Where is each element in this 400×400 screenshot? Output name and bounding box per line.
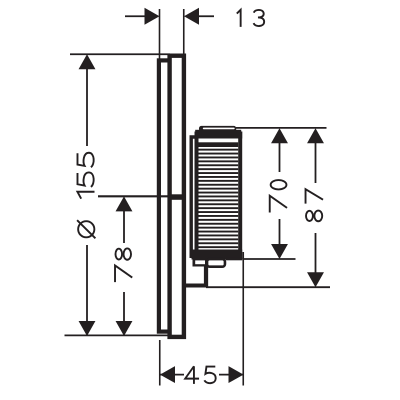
dimension 70 up arrow: [271, 128, 288, 143]
label 78 digit 7: [115, 265, 132, 282]
label 155 digit 5a: [77, 172, 93, 186]
label 70 digit 7: [270, 196, 287, 213]
label 87 digit 8: [306, 211, 322, 222]
underside front edge line: [226, 258, 242, 261]
dimension 87 bottom extension line: [206, 286, 330, 288]
label 155 diameter sign: [77, 220, 95, 238]
dimension 78 line upper segment: [123, 203, 125, 243]
dimension 13 right arrow: [184, 8, 199, 25]
knob upper chamfer band: [199, 142, 239, 147]
dimension 70 down arrow: [271, 244, 288, 259]
knob bottom rim band: [192, 250, 243, 260]
dimension 70-87 top extension line: [236, 127, 327, 129]
knob top cap inner white line: [203, 128, 235, 130]
wire centre axis tick: [98, 195, 184, 197]
dimension 87 line lower segment: [315, 233, 317, 274]
spindle block at centre of plate: [171, 194, 182, 200]
lever tab below handle: [184, 267, 208, 288]
dimension 155 line lower segment: [86, 245, 88, 325]
label 45 digit 4: [185, 366, 199, 384]
dimension 70 line lower segment: [279, 219, 281, 246]
dimension 78 down arrow: [116, 321, 133, 336]
knob body (knurled handle, side view): [197, 134, 241, 258]
wire bottom extension line of plate (diameter 155 lower): [65, 334, 171, 336]
knob neck (between plate and handle): [191, 137, 196, 258]
label 87 digit 7: [306, 189, 323, 203]
dimension 45 left arrow: [160, 366, 175, 383]
dimension 78 line lower segment: [123, 292, 125, 330]
label 155 digit 5b: [77, 153, 93, 167]
dimension 70 bottom extension line: [243, 258, 296, 260]
dimension 13 left tail: [125, 15, 146, 17]
dimension 87 up arrow: [307, 128, 324, 143]
dimension 78 up arrow: [116, 196, 133, 211]
label 13 digit 3: [254, 10, 265, 26]
wire top extension line of plate (diameter 155 upper): [70, 53, 170, 55]
knurling stripes on handle: [199, 149, 239, 248]
knob top rim band: [195, 132, 243, 139]
dimension 155 line upper segment: [86, 58, 88, 146]
underside notch housing: [193, 258, 208, 267]
dimension 45 right arrow: [229, 366, 244, 383]
label 70 digit 0: [271, 180, 287, 189]
dimension 87 line upper segment: [315, 143, 317, 183]
underside notch slot: [195, 260, 205, 264]
dimension 45 extension line right: [242, 252, 244, 386]
dimension 13 left arrow: [145, 8, 160, 25]
dimension 87 down arrow: [307, 272, 324, 287]
dimension 45 extension line left: [159, 340, 161, 386]
dimension 155 up arrow: [79, 54, 96, 69]
dimension 13 extension line left: [159, 9, 161, 59]
knob top cap ring: [199, 126, 236, 132]
label 155 digit 1: [77, 192, 94, 199]
label 78 digit 8: [116, 248, 132, 259]
back plate (wall rosette, side view): [159, 60, 170, 331]
knob cap lower lip: [195, 130, 241, 132]
label 13 digit 1: [237, 10, 241, 27]
label 45 digit 5: [204, 367, 215, 384]
dimension 70 line upper segment: [279, 143, 281, 172]
front plate (155 mm escutcheon disc, side view): [170, 56, 184, 337]
dimension 13 right tail: [198, 15, 214, 17]
safety stop button under handle: [207, 259, 225, 267]
dimension 155 down arrow: [79, 321, 96, 336]
dimension 45 left tail: [160, 374, 184, 376]
dimension 13 extension line right: [183, 9, 185, 54]
dimension 45 right tail: [219, 374, 244, 376]
